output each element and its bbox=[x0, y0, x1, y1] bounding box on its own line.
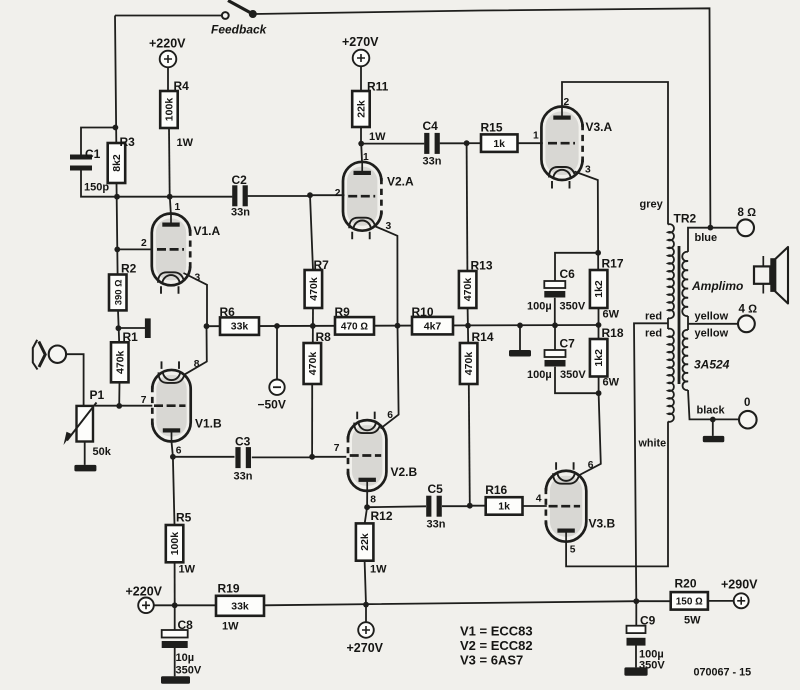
resistor R13 bbox=[459, 271, 477, 308]
wire V2.B anode pin8 down bbox=[366, 491, 368, 507]
svg-text:1k2: 1k2 bbox=[593, 280, 605, 298]
svg-text:R2: R2 bbox=[121, 261, 137, 275]
svg-text:1W: 1W bbox=[222, 621, 239, 633]
TR2 secondary blue wire to 8ohm bbox=[688, 228, 737, 252]
svg-text:1: 1 bbox=[175, 202, 181, 213]
node bus/R13/R14 bbox=[465, 323, 471, 329]
svg-text:R15: R15 bbox=[481, 121, 503, 135]
svg-text:V3.A: V3.A bbox=[586, 120, 613, 134]
node R18/C7/V3.B cathode bbox=[596, 390, 602, 396]
svg-text:C8: C8 bbox=[178, 618, 194, 632]
svg-text:100µ: 100µ bbox=[527, 369, 552, 381]
svg-text:R5: R5 bbox=[176, 511, 192, 525]
node: R4 / V1.A anode / C2 bbox=[167, 194, 173, 200]
ground on bus bbox=[509, 350, 531, 357]
svg-text:V1.A: V1.A bbox=[194, 224, 221, 238]
resistor R2 bbox=[109, 275, 127, 311]
svg-text:3: 3 bbox=[585, 165, 591, 176]
svg-text:8k2: 8k2 bbox=[111, 154, 123, 172]
capacitor C7 bbox=[554, 325, 556, 350]
node bus/C6/C7 bbox=[552, 322, 558, 328]
svg-text:R14: R14 bbox=[472, 330, 494, 344]
potentiometer P1 bbox=[77, 406, 94, 442]
svg-text:33n: 33n bbox=[234, 471, 253, 483]
TR2 secondary yellow tap to 4ohm bbox=[688, 323, 738, 325]
svg-text:black: black bbox=[697, 405, 726, 417]
svg-text:grey: grey bbox=[640, 199, 664, 211]
svg-text:R7: R7 bbox=[314, 258, 330, 272]
svg-text:2: 2 bbox=[335, 188, 341, 199]
svg-text:100k: 100k bbox=[164, 98, 176, 122]
svg-text:470k: 470k bbox=[307, 352, 319, 376]
svg-text:4k7: 4k7 bbox=[424, 320, 442, 332]
svg-text:1W: 1W bbox=[177, 137, 194, 149]
resistor R17 bbox=[590, 270, 608, 308]
svg-text:C7: C7 bbox=[560, 336, 576, 350]
left rail wire (C1/R3 node down to P1/V1.B grid node) bbox=[115, 16, 120, 406]
wire V3.A cathode pin3 down bbox=[575, 172, 599, 271]
svg-text:33n: 33n bbox=[427, 519, 446, 531]
svg-text:50k: 50k bbox=[93, 446, 112, 458]
node rail/C9/TR2 red bbox=[633, 598, 639, 604]
svg-text:33n: 33n bbox=[423, 156, 442, 168]
node bus/V2 cathodes bbox=[395, 323, 401, 329]
wire V2.A cathode pin3 down through bus to V2.B cathode bbox=[375, 226, 399, 429]
capacitor C5 bbox=[367, 506, 470, 507]
resistor R11 bbox=[352, 91, 370, 127]
svg-text:100k: 100k bbox=[169, 532, 181, 556]
triode V2.B bbox=[352, 425, 382, 486]
bottom rail wire bbox=[154, 601, 734, 605]
svg-text:100µ: 100µ bbox=[527, 301, 552, 313]
svg-text:R3: R3 bbox=[120, 135, 136, 149]
wire V1.B anode pin6 down bbox=[172, 442, 173, 457]
triode V1.B bbox=[156, 375, 186, 437]
node C3/R8/V2.B grid bbox=[309, 454, 315, 460]
svg-text:C9: C9 bbox=[640, 614, 656, 628]
resistor R12 bbox=[365, 507, 367, 523]
svg-text:C6: C6 bbox=[560, 267, 576, 281]
capacitor C6 bbox=[544, 281, 565, 288]
svg-text:C2: C2 bbox=[232, 173, 248, 187]
svg-text:+220V: +220V bbox=[126, 585, 163, 599]
svg-text:8: 8 bbox=[370, 494, 376, 505]
wire down to V3.B cathode pin6 bbox=[580, 393, 601, 475]
svg-text:1k2: 1k2 bbox=[593, 349, 605, 367]
node V2.B pin8 / C5 / R12 bbox=[364, 504, 370, 510]
node rail/R5/C8 bbox=[172, 602, 178, 608]
ground under C8 bbox=[161, 676, 190, 684]
triode V2.A bbox=[360, 144, 363, 162]
node bus/R17/R18 bbox=[596, 322, 602, 328]
svg-text:7: 7 bbox=[334, 443, 340, 454]
svg-text:R12: R12 bbox=[371, 509, 393, 523]
resistor R3 bbox=[108, 143, 126, 183]
svg-text:6: 6 bbox=[387, 410, 393, 421]
svg-text:V2 = ECC82: V2 = ECC82 bbox=[460, 638, 533, 653]
svg-text:5W: 5W bbox=[684, 615, 701, 627]
svg-text:1k: 1k bbox=[498, 501, 510, 513]
triode V3.A bbox=[545, 112, 578, 176]
svg-text:C4: C4 bbox=[423, 119, 439, 133]
svg-text:+270V: +270V bbox=[342, 35, 379, 49]
svg-text:R16: R16 bbox=[485, 483, 507, 497]
node: R11 / V2.A anode / C4 bbox=[358, 141, 364, 147]
transformer TR2 secondary winding top section bbox=[682, 252, 688, 316]
resistor R10 bbox=[412, 317, 453, 335]
svg-text:6: 6 bbox=[176, 446, 182, 457]
svg-text:1: 1 bbox=[533, 131, 539, 142]
capacitor C8 bbox=[174, 605, 176, 630]
node: C2 right / V2.A grid / R7 top bbox=[307, 192, 313, 198]
svg-text:yellow: yellow bbox=[695, 311, 729, 323]
triode V1.A bbox=[170, 197, 171, 213]
svg-text:V2.B: V2.B bbox=[391, 465, 418, 479]
resistor R7 bbox=[305, 270, 323, 308]
ground at 0 terminal bbox=[703, 436, 725, 442]
node rail/R12/+270V bbox=[363, 602, 369, 608]
node: V1.B pin6 / C3 / R5 bbox=[170, 454, 176, 460]
screen bar (input screen) bbox=[145, 318, 151, 338]
node V3.A cathode / C6 bbox=[595, 250, 601, 256]
node bus/ground bbox=[517, 323, 523, 329]
svg-text:R6: R6 bbox=[220, 305, 236, 319]
svg-text:C5: C5 bbox=[428, 482, 444, 496]
svg-text:V1 = ECC83: V1 = ECC83 bbox=[460, 624, 533, 639]
svg-text:350V: 350V bbox=[176, 665, 202, 677]
svg-text:350V: 350V bbox=[560, 301, 586, 313]
svg-text:white: white bbox=[638, 438, 667, 450]
svg-text:−50V: −50V bbox=[258, 398, 286, 412]
svg-text:6W: 6W bbox=[603, 309, 620, 321]
resistor R20 bbox=[671, 592, 708, 610]
svg-text:1k: 1k bbox=[493, 138, 505, 150]
svg-text:390 Ω: 390 Ω bbox=[113, 280, 124, 306]
TR2 core bbox=[678, 246, 681, 384]
svg-text:C3: C3 bbox=[235, 435, 251, 449]
resistor R16 bbox=[470, 505, 486, 507]
TR2 secondary black wire to 0 bbox=[688, 390, 739, 419]
svg-text:+290V: +290V bbox=[721, 578, 758, 592]
svg-text:4 Ω: 4 Ω bbox=[739, 304, 758, 316]
svg-text:350V: 350V bbox=[560, 369, 586, 381]
wire V1.A cathode pin3 to bus bbox=[184, 273, 208, 326]
svg-text:TR2: TR2 bbox=[674, 212, 697, 226]
ground under P1 bbox=[74, 465, 96, 472]
svg-text:2: 2 bbox=[564, 97, 570, 108]
wire P1 bottom to ground bbox=[84, 442, 86, 465]
resistor R8 bbox=[304, 343, 322, 384]
capacitor C3 bbox=[173, 456, 312, 459]
wire V3.A anode pin2 to TR2 primary top bbox=[562, 82, 668, 225]
svg-text:33k: 33k bbox=[231, 600, 249, 612]
svg-text:C1: C1 bbox=[85, 147, 101, 161]
svg-text:470k: 470k bbox=[462, 278, 474, 302]
svg-text:6: 6 bbox=[588, 460, 594, 471]
node bus/V1 cathodes bbox=[204, 323, 210, 329]
capacitor C4 bbox=[361, 142, 466, 144]
svg-text:470k: 470k bbox=[114, 350, 126, 374]
triode V3.B bbox=[550, 476, 582, 537]
svg-text:0: 0 bbox=[744, 397, 750, 409]
svg-text:R17: R17 bbox=[602, 257, 624, 271]
svg-text:+270V: +270V bbox=[347, 641, 384, 655]
svg-text:yellow: yellow bbox=[695, 328, 729, 340]
svg-text:R11: R11 bbox=[367, 80, 389, 94]
node bus/-50V bbox=[274, 323, 280, 329]
svg-text:070067 - 15: 070067 - 15 bbox=[694, 667, 752, 679]
svg-text:R19: R19 bbox=[218, 582, 240, 596]
svg-text:V2.A: V2.A bbox=[387, 175, 414, 189]
svg-text:R1: R1 bbox=[123, 330, 139, 344]
svg-text:+220V: +220V bbox=[149, 37, 186, 51]
svg-text:2: 2 bbox=[141, 238, 147, 249]
svg-text:R9: R9 bbox=[335, 305, 351, 319]
transformer TR2 secondary winding bottom section bbox=[683, 330, 688, 390]
svg-text:150p: 150p bbox=[84, 182, 109, 194]
node: R2/R1/screen stub bbox=[116, 325, 122, 331]
wire C4 node down to R13 bbox=[466, 143, 469, 271]
svg-text:R20: R20 bbox=[675, 577, 697, 591]
svg-text:1W: 1W bbox=[369, 131, 386, 143]
terminal 4 ohm bbox=[738, 315, 755, 332]
svg-text:red: red bbox=[645, 328, 662, 340]
transformer TR2 primary winding top section bbox=[668, 224, 674, 318]
supply +290V bbox=[734, 593, 749, 608]
svg-text:470k: 470k bbox=[463, 352, 475, 376]
svg-text:8 Ω: 8 Ω bbox=[738, 207, 757, 219]
feedback switch S1 bbox=[222, 12, 229, 19]
resistor R9 bbox=[335, 317, 374, 335]
terminal 8 ohm bbox=[737, 219, 754, 236]
svg-text:R18: R18 bbox=[602, 326, 624, 340]
wire V1.B cathode pin8 up to bus node bbox=[184, 326, 207, 375]
node: R1 bottom / P1 wiper / V1.B grid bbox=[116, 403, 122, 409]
svg-text:470 Ω: 470 Ω bbox=[341, 322, 368, 333]
node blue/feedback bbox=[708, 225, 714, 231]
svg-text:Feedback: Feedback bbox=[211, 23, 268, 37]
node: R3 bottom / C1 bottom / C2 wire bbox=[114, 194, 120, 200]
svg-text:7: 7 bbox=[141, 395, 147, 406]
node bus/R7/R8 bbox=[310, 323, 316, 329]
svg-text:33n: 33n bbox=[231, 207, 250, 219]
svg-text:blue: blue bbox=[695, 232, 718, 244]
resistor R1 bbox=[111, 342, 129, 382]
input connector J1 bbox=[33, 340, 38, 370]
ground under C9 bbox=[624, 667, 647, 675]
capacitor C1 bbox=[81, 128, 117, 197]
node black/ground bbox=[710, 417, 716, 423]
top rail right segment / feedback wire to node blue bbox=[253, 8, 711, 227]
svg-text:5: 5 bbox=[570, 545, 576, 556]
resistor R14 bbox=[460, 343, 478, 384]
capacitor C2 bbox=[232, 185, 237, 206]
svg-text:R8: R8 bbox=[316, 330, 332, 344]
svg-text:6W: 6W bbox=[603, 377, 620, 389]
resistor R5 bbox=[173, 457, 175, 525]
svg-text:R10: R10 bbox=[412, 305, 434, 319]
resistor R19 bbox=[216, 596, 264, 616]
svg-text:red: red bbox=[645, 311, 662, 323]
svg-text:R13: R13 bbox=[471, 259, 493, 273]
svg-text:V3 = 6AS7: V3 = 6AS7 bbox=[460, 653, 523, 668]
TR2 red centre tap wire bbox=[634, 323, 668, 601]
node C4/R15/R13 bbox=[464, 140, 470, 146]
svg-text:R4: R4 bbox=[174, 79, 190, 93]
svg-text:1W: 1W bbox=[179, 564, 196, 576]
resistor R15 bbox=[467, 142, 481, 144]
supply -50V bbox=[276, 326, 278, 380]
svg-text:470k: 470k bbox=[308, 277, 320, 301]
svg-text:V1.B: V1.B bbox=[195, 417, 222, 431]
resistor R4 bbox=[160, 91, 178, 128]
wire V1.A grid pin2 bbox=[114, 247, 120, 253]
wire input to P1 bbox=[66, 354, 84, 406]
wire V1.B grid pin7 bbox=[119, 405, 152, 407]
svg-text:22k: 22k bbox=[356, 100, 368, 118]
top rail left segment bbox=[115, 15, 222, 17]
wire V3.B anode pin5 to TR2 white bbox=[566, 422, 668, 567]
svg-text:33k: 33k bbox=[231, 321, 249, 333]
svg-text:4: 4 bbox=[536, 494, 542, 505]
svg-text:10µ: 10µ bbox=[176, 652, 195, 664]
loudspeaker LS1 bbox=[762, 256, 764, 294]
svg-text:P1: P1 bbox=[90, 388, 105, 402]
svg-text:22k: 22k bbox=[359, 533, 371, 551]
svg-text:Amplimo: Amplimo bbox=[691, 279, 743, 293]
supply +270V (bottom) bbox=[365, 605, 367, 623]
capacitor C9 bbox=[635, 601, 637, 626]
resistor R18 bbox=[590, 339, 608, 377]
resistor R6 bbox=[220, 317, 259, 335]
svg-text:1W: 1W bbox=[370, 564, 387, 576]
wire P1 wiper to grid node bbox=[95, 405, 119, 407]
terminal 0 bbox=[739, 411, 757, 429]
wire node to C2 bbox=[117, 195, 310, 198]
svg-text:V3.B: V3.B bbox=[589, 517, 616, 531]
svg-text:150 Ω: 150 Ω bbox=[676, 597, 703, 608]
node C5/R14/R16 bbox=[467, 503, 473, 509]
node: C1 top / R3 top bbox=[113, 125, 119, 131]
transformer TR2 primary winding bottom section bbox=[668, 329, 674, 422]
main bus wire bbox=[207, 325, 599, 326]
svg-text:3A524: 3A524 bbox=[694, 358, 730, 372]
